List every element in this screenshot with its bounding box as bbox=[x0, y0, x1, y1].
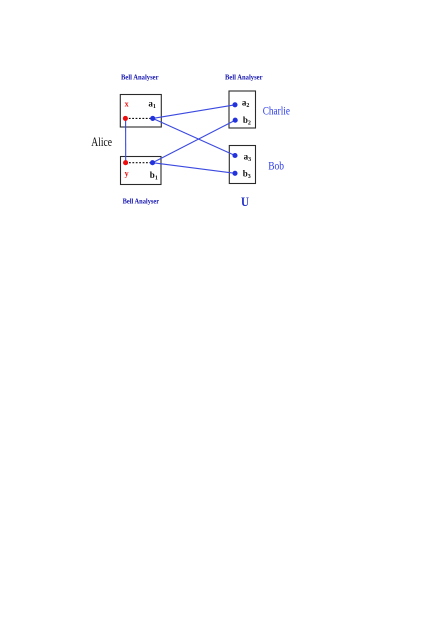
node red dot x bbox=[123, 116, 128, 121]
svg-text:Alice: Alice bbox=[91, 135, 112, 149]
node blue dot b3 bbox=[232, 171, 237, 176]
wire b1 to b2 bbox=[153, 120, 236, 163]
box Bell analyser top-left bbox=[120, 95, 161, 128]
node blue dot b2 bbox=[233, 118, 238, 123]
node blue dot a1 bbox=[150, 116, 155, 121]
node red dot y bbox=[123, 160, 128, 165]
wire dashed x-dot to a1-dot bbox=[125, 117, 152, 119]
svg-text:x: x bbox=[125, 100, 129, 109]
svg-text:U: U bbox=[241, 195, 249, 209]
svg-text:Charlie: Charlie bbox=[263, 105, 290, 117]
node blue dot a3 bbox=[232, 153, 237, 158]
svg-text:Bell Analyser: Bell Analyser bbox=[121, 73, 159, 82]
wire blue vertical x-dot to y-dot bbox=[125, 118, 127, 162]
node blue dot a2 bbox=[232, 102, 237, 107]
wire a1 to a2 bbox=[153, 105, 235, 119]
wire dashed y-dot to b1-dot bbox=[126, 162, 153, 164]
box Bell analyser bottom-left bbox=[121, 157, 162, 185]
svg-text:Bell Analyser: Bell Analyser bbox=[123, 197, 160, 206]
box U bottom-right bbox=[229, 146, 255, 184]
wire a1 to a3 bbox=[153, 118, 235, 155]
wire b1 to b3 bbox=[153, 163, 236, 174]
box Bell analyser top-right bbox=[229, 91, 256, 128]
svg-text:Bell Analyser: Bell Analyser bbox=[225, 73, 263, 82]
svg-text:Bob: Bob bbox=[268, 160, 284, 172]
node blue dot b1 bbox=[150, 160, 155, 165]
svg-text:y: y bbox=[125, 169, 129, 178]
